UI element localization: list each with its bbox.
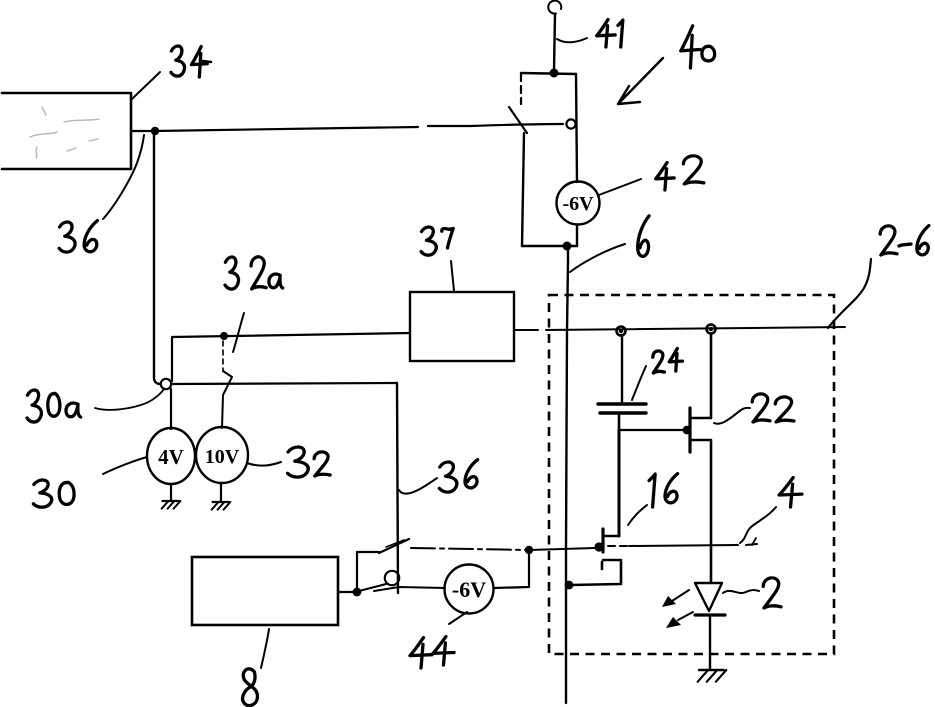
label 42 (656, 163, 674, 179)
switch 40 blade (509, 107, 527, 133)
wire source 44 to line 4 (494, 550, 529, 588)
switch 40 right lead (576, 74, 577, 182)
label 24 (653, 351, 665, 373)
leader 37 (451, 261, 454, 291)
node ring rail/capacitor 24 (617, 327, 626, 336)
wire 4V to ground (170, 484, 172, 500)
wire node 30a riser to line 32a (172, 333, 410, 381)
node switch 44 pole (353, 588, 362, 597)
label 32 (288, 447, 309, 477)
wire node 30a to wire 36 vertical (172, 383, 397, 384)
junction node 36 (151, 127, 159, 135)
switch 44 blade (379, 539, 409, 553)
wire 42 to bottom bar (576, 225, 578, 246)
ground below LED 2 (699, 669, 724, 671)
transistor 22 drain lead (691, 334, 711, 418)
node transistor 22 gate (683, 426, 692, 435)
ground below 4V (163, 500, 179, 502)
wire LED 2 to ground (709, 615, 711, 669)
leader 36 upper (103, 135, 144, 219)
block 34 (box) (2, 93, 131, 169)
label 2 (LED) (763, 578, 781, 608)
leader 44 (449, 612, 467, 624)
node 30a (open circle) (161, 379, 171, 389)
junction node 32a (220, 332, 228, 340)
wire 36 vertical to switch 44 (397, 383, 398, 593)
label 30a (27, 390, 41, 422)
wire 4V source to node 30a (170, 389, 172, 429)
junction wire 6 / transistor 16 source (565, 581, 574, 590)
switch 44 contact (open circle) (385, 571, 399, 585)
voltage source 30 (4V) (147, 428, 195, 484)
node line 4 / source 44 (525, 546, 533, 554)
leader 6 (570, 244, 625, 272)
leader 42 (599, 179, 641, 195)
line 4 into cell (529, 548, 595, 550)
leader 16 (628, 505, 647, 525)
label 22 (752, 394, 770, 422)
label 34 (171, 46, 185, 76)
wire capacitor 24 to gate node (618, 413, 621, 430)
label 8 (243, 669, 258, 706)
node transistor 16 gate on line 4 (594, 542, 603, 551)
svg-text:-6V: -6V (452, 577, 486, 602)
wire block 8 to switch 44 (338, 591, 355, 593)
svg-text:4V: 4V (158, 445, 184, 469)
line 4 dashes after transistor 16 (608, 545, 628, 547)
block 37 (box) (410, 292, 514, 361)
leader 32 (247, 462, 281, 466)
switch 40 left down lead (522, 133, 524, 246)
wire gate node to transistor 22 gate (619, 429, 683, 431)
cell boundary 2-6 (dashed box) (549, 295, 834, 654)
line 4 end tick (752, 538, 756, 545)
LED 2 emission arrow 2 (678, 612, 693, 620)
node top of switch 40 (550, 69, 559, 78)
LED 2 cathode bar (695, 613, 725, 616)
leader 41 (557, 38, 587, 42)
label 6 (wire 6) (638, 216, 649, 257)
label 44 (410, 638, 432, 656)
transistor 22 channel bar (688, 408, 691, 452)
switch 40 top bar (521, 73, 576, 74)
arrow leader 40 (618, 58, 663, 104)
label 32a (225, 257, 239, 289)
transistor 16 channel bar (601, 529, 604, 552)
wire contact to source 44 (374, 587, 445, 591)
wire rail 37 output to cell (514, 327, 845, 330)
line 4 from switch 44 (411, 548, 529, 550)
transistor 16 drain lead (604, 535, 619, 538)
leader 30 (103, 457, 147, 474)
label 40 (681, 26, 700, 51)
label 16 (649, 474, 655, 507)
node 6 at switch 40 bottom (563, 242, 572, 251)
label 36 (wire 36 upper) (59, 222, 75, 252)
terminal 41 (open circle) (548, 1, 561, 14)
switch 44 blade tick (386, 540, 404, 547)
voltage source 44 (-6V) (445, 565, 494, 614)
wire 10V to ground (220, 483, 222, 501)
switch 40 left lead (dashed) (520, 74, 522, 104)
label 30 (33, 480, 51, 507)
node ring rail/transistor 22 (707, 325, 716, 334)
wire 36 vertical down to node 30a (154, 131, 160, 384)
wire gate node down to transistor 16 drain (618, 430, 621, 536)
wire block 34 to switch 40 contact (131, 124, 563, 131)
leader 30a (95, 389, 164, 410)
leader 32a (233, 313, 244, 352)
line 4 right segment (629, 544, 757, 546)
leader 2 (723, 590, 759, 593)
wire terminal 41 down (554, 14, 555, 70)
switch 44 lower blade (359, 584, 386, 591)
leader 2-6 (828, 259, 871, 328)
switch 40 bottom bar (522, 245, 577, 247)
capacitor 24 top plate (598, 402, 646, 405)
transistor 16 source lead (571, 560, 621, 585)
leader 22 (714, 408, 750, 424)
leader 4 (740, 507, 776, 543)
switch 44 pole lead up (357, 552, 379, 592)
capacitor 24 bottom plate (600, 411, 646, 414)
LED 2 triangle (695, 583, 722, 611)
label 4 (line 4) (779, 478, 802, 495)
wire rail to capacitor 24 (621, 335, 623, 402)
leader 24 (632, 366, 646, 400)
svg-text:-6V: -6V (562, 193, 594, 215)
label 36 (wire 36 lower) (439, 462, 457, 492)
voltage source 42 (-6V) (557, 182, 600, 225)
switch 40 contact (open circle) (566, 119, 575, 128)
wire 10V source to node 32a (faint) (222, 341, 224, 371)
LED 2 emission arrow 1 (672, 590, 689, 601)
wire 6 vertical (566, 248, 568, 703)
block 8 (box) (192, 557, 338, 625)
leader 36 lower (399, 478, 437, 494)
label 41 (597, 20, 615, 36)
svg-text:10V: 10V (205, 446, 240, 468)
faint scribble inside box 34 (30, 107, 99, 158)
leader 34 (132, 72, 160, 99)
transistor 22 source lead (691, 440, 711, 581)
voltage source 32 (10V) (196, 427, 248, 483)
label 2-6 (cell) (880, 226, 897, 255)
leader 8 (261, 629, 269, 668)
ground below 10V (213, 501, 229, 503)
label 37 (421, 227, 436, 255)
